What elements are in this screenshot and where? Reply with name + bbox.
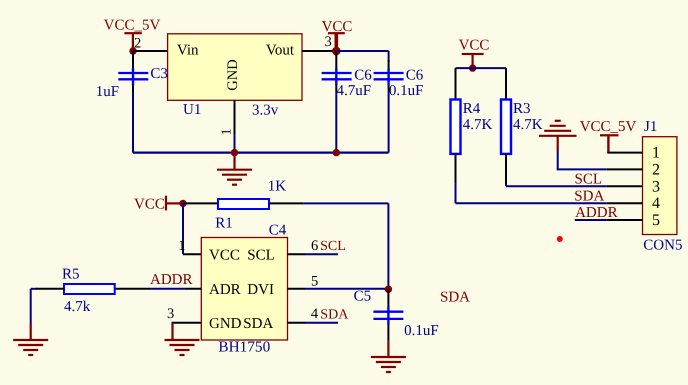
svg-text:C5: C5 <box>354 289 372 305</box>
wire R5 left to ground <box>31 289 64 323</box>
svg-text:SDA: SDA <box>574 188 604 204</box>
wire R1 to vertical <box>269 202 304 204</box>
svg-text:2: 2 <box>652 161 660 178</box>
red marker dot <box>557 236 563 242</box>
svg-text:SDA: SDA <box>243 316 273 332</box>
J1 pin 1 <box>607 145 660 162</box>
svg-text:SCL: SCL <box>320 239 346 254</box>
wire ground to J1 pin 2 <box>557 151 607 169</box>
regulator U1 body <box>168 34 302 101</box>
svg-text:VCC: VCC <box>459 38 490 54</box>
wire ADDR stub to J1 pin 5 <box>575 219 607 221</box>
svg-text:6: 6 <box>311 238 318 254</box>
svg-text:3: 3 <box>652 178 660 195</box>
power port VCC (R4/R3) <box>459 38 490 69</box>
svg-text:VCC_5V: VCC_5V <box>104 18 161 34</box>
svg-text:4.7K: 4.7K <box>513 117 543 133</box>
ground (under U1) <box>217 153 252 185</box>
junction dot (VCC / R1) <box>179 200 186 207</box>
wire C6a to rail <box>335 91 337 153</box>
svg-text:4.7k: 4.7k <box>64 299 91 315</box>
svg-text:SCL: SCL <box>247 248 275 264</box>
junction dot (Vout / VCC) <box>332 47 341 56</box>
svg-text:C4: C4 <box>269 223 287 239</box>
bottom rail wire <box>133 152 389 154</box>
svg-text:R5: R5 <box>62 267 80 283</box>
wire R5 to ADR pin <box>115 288 202 290</box>
pin 6 (SCL) <box>288 238 339 254</box>
wire vertical to C5 node <box>387 203 389 289</box>
svg-text:4: 4 <box>311 306 319 322</box>
svg-text:4.7K: 4.7K <box>463 117 493 133</box>
U1 Vout pin <box>302 50 336 52</box>
svg-text:DVI: DVI <box>247 282 274 298</box>
wire VCC to R1 <box>183 202 187 204</box>
svg-text:1: 1 <box>218 128 233 135</box>
J1 pin 4 <box>607 195 660 212</box>
wire VCC down to pin 1 <box>183 203 201 254</box>
svg-text:R3: R3 <box>513 101 531 117</box>
power port VCC_5V (top-left) <box>104 18 161 51</box>
ground (BH1750 pin 3) <box>165 323 200 355</box>
svg-text:C3: C3 <box>150 66 168 82</box>
svg-text:3: 3 <box>325 34 332 50</box>
svg-text:0.1uF: 0.1uF <box>404 323 439 339</box>
svg-text:ADDR: ADDR <box>150 272 193 288</box>
wire C3 to bottom rail <box>132 92 134 153</box>
ground (inverted, J1 pin 2) <box>539 121 577 151</box>
junction dot (VCC_5V / Vin) <box>129 47 136 54</box>
svg-text:SDA: SDA <box>320 307 349 322</box>
svg-text:3.3v: 3.3v <box>252 103 279 119</box>
svg-text:C6: C6 <box>406 68 424 84</box>
svg-text:ADDR: ADDR <box>575 205 618 221</box>
svg-text:1: 1 <box>178 238 185 254</box>
svg-text:U1: U1 <box>183 102 201 118</box>
wire R4 to J1 pin 4 <box>456 202 607 204</box>
svg-text:GND: GND <box>209 316 242 332</box>
svg-text:R4: R4 <box>463 101 481 117</box>
svg-text:Vin: Vin <box>177 43 199 59</box>
svg-text:C6: C6 <box>354 68 372 84</box>
svg-text:VCC: VCC <box>134 197 165 213</box>
svg-text:5: 5 <box>652 212 660 229</box>
resistor R1 <box>218 199 269 209</box>
IC BH1750 body <box>201 238 287 341</box>
ground (C5) <box>371 340 406 372</box>
U1 GND pin <box>218 100 234 135</box>
junction dot (DVI / C5) <box>385 286 392 293</box>
svg-text:3: 3 <box>167 306 174 322</box>
pin 3 (GND) <box>167 306 201 323</box>
pin 4 (SDA) <box>288 306 339 323</box>
svg-text:SCL: SCL <box>575 171 603 187</box>
wire junction to C6b top <box>336 51 388 62</box>
svg-text:1uF: 1uF <box>96 84 119 100</box>
svg-text:5: 5 <box>311 273 318 289</box>
wire GND pin to rail <box>234 134 236 153</box>
svg-text:VCC_5V: VCC_5V <box>580 119 637 135</box>
svg-text:ADR: ADR <box>209 282 241 298</box>
junction dot (VCC rail) <box>469 64 476 71</box>
connector J1 body <box>643 137 677 235</box>
J1 pin 5 <box>607 212 660 229</box>
wire C6b to rail <box>388 91 390 153</box>
power port VCC (R1) <box>134 196 183 213</box>
svg-text:CON5: CON5 <box>643 238 682 254</box>
power port VCC (top) <box>322 19 353 51</box>
wire VCC top rail <box>456 67 507 69</box>
svg-text:R1: R1 <box>215 216 233 232</box>
svg-text:J1: J1 <box>644 119 657 135</box>
svg-text:Vout: Vout <box>266 43 295 59</box>
resistor R5 <box>64 284 115 294</box>
svg-text:BH1750: BH1750 <box>218 339 270 356</box>
svg-text:VCC: VCC <box>209 248 240 264</box>
capacitor C6 (4.7uF) <box>322 51 352 91</box>
svg-text:1K: 1K <box>268 179 287 195</box>
wire to U1 Vin pin <box>133 50 168 52</box>
svg-text:2: 2 <box>134 36 141 52</box>
capacitor C3 <box>118 51 148 92</box>
pin 5 (DVI) <box>288 273 389 289</box>
capacitor C5 <box>373 289 403 340</box>
resistor R3 <box>501 68 511 186</box>
capacitor C6 (0.1uF) <box>374 60 404 91</box>
svg-text:1: 1 <box>652 145 660 162</box>
power port VCC_5V (J1) <box>580 119 637 153</box>
wire R3 to J1 pin 3 <box>506 185 607 187</box>
J1 pin 3 <box>607 178 660 195</box>
svg-text:SDA: SDA <box>440 290 470 306</box>
junction dot (rail / ground) <box>231 149 238 156</box>
svg-text:4: 4 <box>652 195 660 212</box>
junction dot (rail / C6a) <box>333 149 340 156</box>
svg-text:4.7uF: 4.7uF <box>337 83 372 99</box>
J1 pin 2 <box>607 161 660 178</box>
svg-text:GND: GND <box>225 59 241 90</box>
resistor R4 <box>451 68 461 203</box>
svg-text:0.1uF: 0.1uF <box>389 83 424 99</box>
ground (R5) <box>13 323 48 355</box>
